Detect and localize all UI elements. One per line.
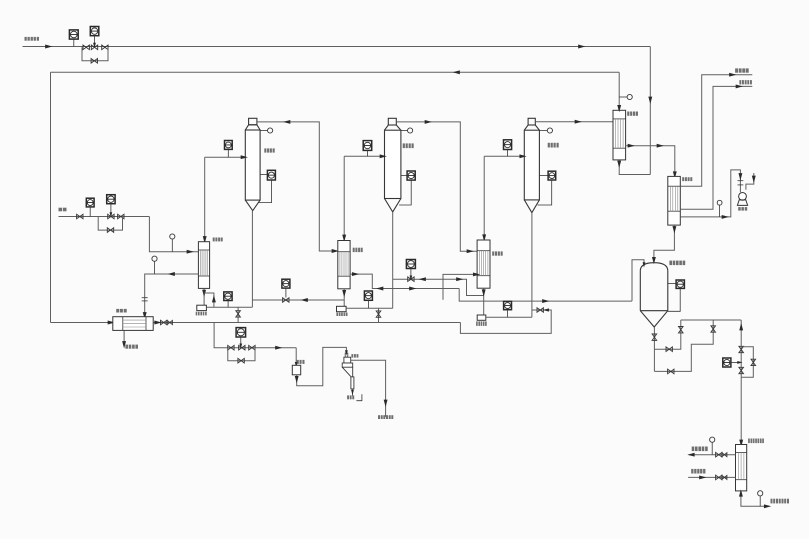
wire slurry header — [681, 319, 741, 321]
control valve CV2 (feed) — [108, 214, 114, 219]
wire feed drop to heater 1 — [149, 217, 198, 254]
valve V14 (branch B) — [668, 369, 674, 374]
wire drop to mother liquor pump — [295, 348, 298, 368]
instrument LIC-12 — [406, 260, 415, 281]
instrument PI-11 (P2) — [364, 291, 372, 308]
valve V7 (feed bypass) — [107, 228, 113, 233]
label first-stage condenser — [627, 112, 638, 116]
valve V20 (cw supply) — [716, 475, 727, 480]
label vacuum pump — [738, 207, 747, 211]
instrument FIC-4 (feed) — [107, 195, 115, 218]
wire slurry branch B — [654, 320, 713, 371]
instrument LIC-8 — [282, 279, 290, 297]
instrument LI-14 (E3 level) — [539, 171, 555, 180]
label crystallizer — [669, 261, 685, 266]
wire product bypass loop — [741, 347, 753, 378]
wire H1 condensate to preheater — [143, 272, 199, 319]
label circulation pump 3 — [476, 321, 487, 326]
wire P2 drain to condensate header — [378, 308, 380, 322]
valve V10 (E3 loop) — [537, 308, 549, 313]
valve V11 (crystallizer drain) — [652, 334, 657, 340]
wire E3 feed inlet — [484, 154, 527, 158]
pump P3 forced-circulation pump — [477, 315, 486, 320]
label cooling water supply — [691, 469, 705, 474]
column E1 first-effect evaporator — [245, 118, 260, 210]
instrument FI-3 (feed) — [86, 198, 94, 216]
gauge PG-1 — [170, 234, 175, 252]
instrument PI-1 (steam line) — [69, 30, 78, 47]
heater H1 first-effect heater — [198, 242, 209, 289]
instrument LI-10 (E2 level) — [401, 171, 415, 180]
label third-effect evaporator — [548, 143, 559, 148]
condenser C1 first-stage condenser — [613, 110, 626, 160]
wire H3 bottom drain — [482, 288, 486, 315]
valve V16 (product upper) — [739, 346, 744, 352]
gauge vent E3 — [539, 128, 552, 133]
wire E1 bottoms line — [251, 211, 253, 308]
valve V13 (branch A riser) — [679, 327, 684, 333]
valve V17 (product lower) — [739, 367, 744, 373]
pump P5 mother liquor pump — [292, 365, 300, 375]
wire condensate header to preheater — [51, 321, 461, 325]
wire cooled product outlet — [739, 489, 771, 508]
wire E1 feed inlet — [205, 155, 248, 159]
wire H2 bottom drain — [342, 289, 346, 307]
valve V15 (branch B riser) — [711, 326, 716, 332]
wire H3 shell outlet stub — [443, 272, 480, 299]
label steam feed (top-left) — [25, 37, 40, 41]
instrument TI-5 (E1 feed) — [225, 141, 233, 158]
wire H1 drain branch — [204, 293, 216, 307]
label mother liquor pump — [297, 360, 305, 364]
wire upper return header — [51, 70, 620, 74]
wire E3 bottoms to condensate loop — [460, 310, 551, 333]
control valve CV1 (steam) — [91, 45, 97, 50]
valve V4 (condensate) — [161, 320, 173, 325]
label circulation pump 1 — [196, 312, 207, 316]
instrument LI-16 (crystallizer) — [668, 280, 685, 288]
wire cyclone underflow — [351, 389, 354, 396]
label preheater — [116, 309, 127, 313]
instrument PI-7 (P1) — [224, 292, 232, 307]
label centrifuge — [347, 395, 354, 399]
valve V22 (ml) — [249, 345, 255, 350]
wire E2 level tap — [399, 180, 411, 205]
aftercondenser C2 second-stage condenser — [668, 176, 681, 225]
pump P4 vacuum pump — [737, 193, 747, 206]
valve V2 (steam) — [102, 45, 108, 50]
wire cooling water return — [687, 453, 735, 457]
wire E2 feed riser — [342, 156, 346, 242]
wire feed bypass loop — [98, 217, 122, 231]
wire raw feed line — [59, 216, 150, 218]
label condensate reuse — [739, 80, 752, 84]
label to waste water station — [125, 345, 138, 349]
valve V12 (branch A) — [666, 347, 672, 352]
pump P2 forced-circulation pump — [337, 306, 347, 311]
wire E2 vapor line — [396, 120, 477, 253]
label product plate cooler — [748, 439, 764, 444]
wire P1 discharge — [206, 306, 252, 308]
wire E1 level tap — [258, 180, 271, 203]
wire crystallizer bottom drain — [653, 327, 655, 371]
valve V5 (feed) — [77, 214, 83, 219]
wire C2 bottoms to crystallizer — [652, 225, 676, 264]
instrument FIC-18 (ml) — [236, 328, 246, 349]
column E3 third-effect evaporator — [524, 118, 539, 212]
instrument FIC-17 (product) — [723, 358, 743, 367]
valve V6 (feed) — [118, 214, 124, 219]
valve V3 (steam bypass) — [91, 59, 97, 64]
gauge PG-3 (condenser) — [619, 94, 632, 99]
label cooled liquor out — [771, 499, 790, 504]
column E2 second-effect evaporator — [385, 118, 401, 212]
valve V18 (product bypass) — [751, 359, 756, 365]
crystallizer K1 (DTB) — [640, 263, 668, 327]
wire vacuum pump discharge — [746, 173, 756, 190]
heater H3 third-effect heater — [477, 240, 490, 288]
gauge vent E2 — [401, 128, 413, 133]
wire E3 level tap — [538, 180, 552, 205]
valve V19 (cw return) — [716, 452, 727, 457]
exchanger X2 feed preheater — [113, 317, 153, 331]
label second-stage condenser — [682, 177, 692, 181]
chute mark below cyclone — [356, 394, 362, 401]
wire E2 bottoms line — [392, 212, 394, 308]
label hydrocyclone — [351, 354, 358, 358]
wire E1 bottoms transfer — [252, 298, 344, 302]
gauge PG-5 (cw) — [710, 437, 715, 455]
wire steam line downcomer — [648, 47, 652, 175]
wire E2 feed inlet — [344, 154, 387, 158]
cooler X1 product plate cooler — [736, 445, 747, 491]
wire steam supply header — [23, 45, 651, 49]
control valve CV4 (E2 bottoms) — [408, 277, 414, 282]
label second-effect evaporator — [403, 143, 414, 148]
label third-effect heater — [492, 251, 503, 255]
wire crystallizer feed riser — [632, 260, 645, 301]
control valve CV5 (ml) — [239, 345, 245, 350]
wire cooling water supply — [688, 475, 735, 479]
instrument TI-9 (E2 feed) — [363, 141, 372, 157]
wire E3 bottoms line — [531, 213, 533, 318]
label overflow destination — [378, 415, 393, 419]
gauge PG-2 — [152, 256, 157, 274]
wire E3 vapor line to condenser — [535, 120, 613, 124]
wire P3 discharge — [486, 316, 532, 318]
wire E1 vapor line — [257, 120, 339, 253]
pipe-break marks vacuum line — [738, 181, 744, 185]
valve V8 (P1 drain) — [236, 311, 241, 317]
instrument TI-13 (E3 feed) — [504, 140, 512, 157]
wire E3 feed riser — [482, 156, 486, 241]
wire E2 bottoms control line — [393, 277, 484, 295]
pipe-break marks H1 line — [142, 298, 148, 301]
wire H2 shell outlet — [350, 272, 459, 290]
gauge PG-4 (vacuum) — [717, 200, 722, 217]
label first-effect heater — [213, 238, 223, 242]
valve V23 (ml bypass) — [238, 358, 244, 363]
wire H1 bottom drain — [202, 288, 206, 305]
wire E1 feed riser — [203, 157, 207, 243]
wire steam bypass loop — [82, 47, 108, 61]
wire mother liquor takeoff — [214, 323, 296, 350]
wire condenser top inlet — [617, 72, 621, 112]
valve V1 (steam) — [83, 45, 89, 50]
wire transfer to crystallizer header — [459, 289, 632, 304]
wire C2 outlet to vacuum pump — [680, 170, 742, 219]
label circulation pump 2 — [336, 313, 347, 317]
wire slurry branch A — [654, 320, 680, 349]
wire ml bypass loop — [228, 348, 255, 361]
wire crystallizer level tap — [668, 288, 680, 311]
wire P2 discharge — [346, 307, 393, 309]
instrument PI-15 (P3) — [504, 301, 512, 317]
cyclone S1 hydrocyclone — [342, 353, 354, 389]
wire cyclone overflow — [351, 360, 388, 417]
label vent to atmosphere — [735, 68, 749, 72]
wire P5 discharge to cyclone — [295, 347, 348, 385]
gauge PG-6 (product) — [758, 491, 763, 507]
label first-effect evaporator — [264, 148, 274, 152]
wire left downcomer — [50, 72, 52, 322]
instrument LI-6 (E1 level) — [260, 170, 275, 180]
wire vent line 1 — [680, 73, 752, 186]
valve V9 (P2 drain) — [376, 311, 381, 317]
wire preheater drain — [122, 330, 126, 348]
valve CV3 (bottoms transfer) — [283, 298, 289, 303]
label raw material — [59, 208, 67, 212]
heater H2 second-effect heater — [338, 241, 350, 289]
wire vent line 2 — [680, 84, 752, 209]
wire product line to cooler — [739, 320, 743, 447]
valve V21 (ml) — [228, 345, 234, 350]
wire P1 drain to condensate header — [237, 307, 239, 322]
instrument PIC-2 (steam line) — [90, 27, 99, 49]
wire condenser bottom drain — [617, 160, 650, 175]
wire condensate to aftercondenser — [626, 144, 677, 179]
gauge vent E1 — [260, 128, 273, 133]
pump P1 forced-circulation pump — [197, 305, 207, 310]
label second-effect heater — [353, 248, 363, 252]
label cooling water return — [692, 447, 708, 452]
